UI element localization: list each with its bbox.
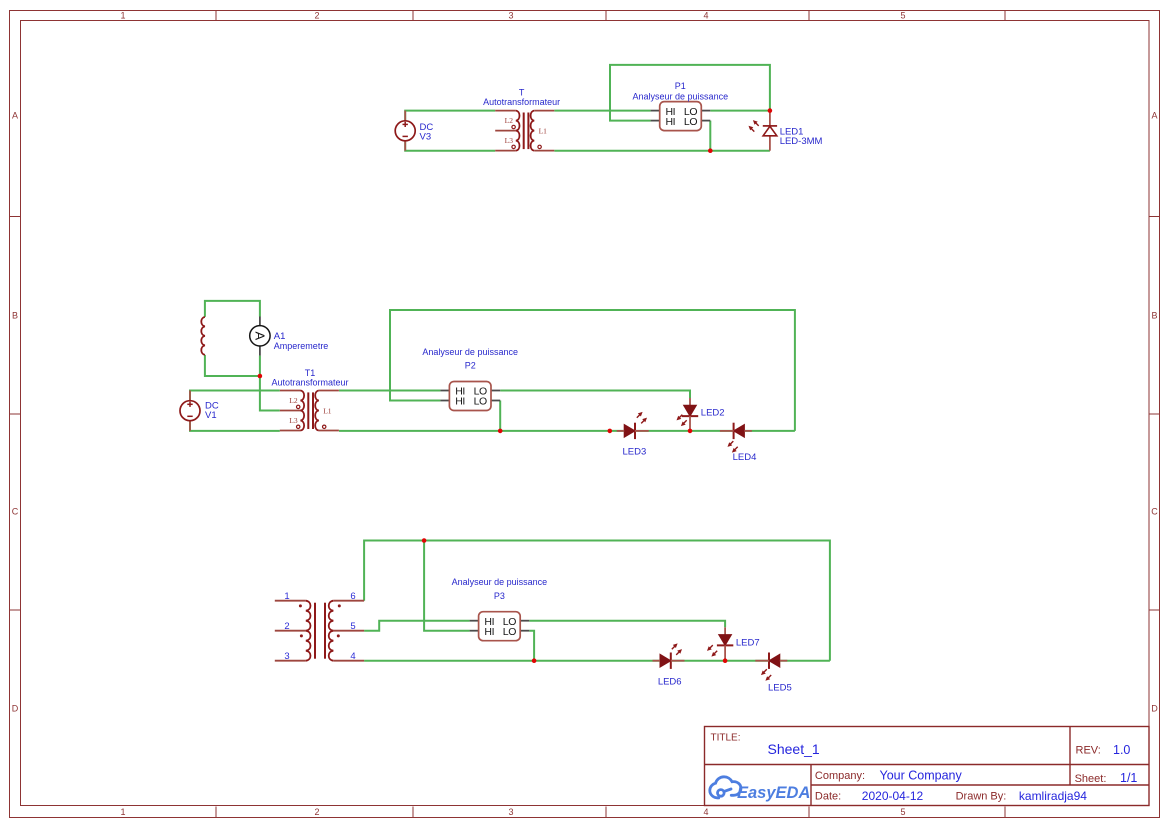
- svg-text:L1: L1: [539, 127, 548, 136]
- svg-text:Company:: Company:: [815, 770, 865, 782]
- svg-text:HI: HI: [484, 626, 494, 638]
- wire pin5 to P3 row1: [364, 621, 470, 631]
- wire ammeter loop top: [205, 301, 260, 317]
- op-amp box P2 (power analyzer): [440, 382, 500, 411]
- svg-text:D: D: [1151, 704, 1158, 714]
- ammeter A1: [250, 317, 270, 356]
- svg-text:LED3: LED3: [623, 446, 647, 457]
- frame ruler ticks top: [216, 11, 1005, 21]
- svg-text:A: A: [12, 111, 18, 121]
- wire bottom net middle: [339, 430, 795, 432]
- junction LED2 bottom: [688, 429, 693, 434]
- svg-text:L3: L3: [505, 136, 514, 145]
- junction left of LED3: [608, 429, 613, 434]
- svg-text:C: C: [12, 507, 19, 517]
- wire P3 row2 down: [529, 631, 534, 661]
- svg-text:5: 5: [350, 621, 355, 632]
- svg-text:V3: V3: [420, 132, 432, 143]
- wire V1 bottom net: [190, 421, 280, 431]
- svg-text:3: 3: [508, 807, 513, 817]
- frame row labels left: [12, 111, 19, 714]
- svg-text:L2: L2: [289, 396, 298, 405]
- svg-text:P1: P1: [675, 81, 686, 91]
- inductor of ammeter loop: [201, 317, 205, 355]
- svg-text:2: 2: [284, 621, 289, 632]
- svg-text:LED-3MM: LED-3MM: [780, 136, 823, 147]
- frame ruler ticks bottom: [216, 807, 1005, 818]
- transformer T1: [280, 391, 339, 431]
- junction P3 row2 bottom: [532, 658, 537, 663]
- svg-text:L3: L3: [289, 416, 298, 425]
- svg-text:C: C: [1151, 507, 1158, 517]
- wire top junction down to P3 row2: [424, 541, 470, 631]
- op-amp box P1 (power analyzer): [651, 102, 711, 131]
- junction bottom: [708, 148, 713, 153]
- svg-text:Analyseur de puissance: Analyseur de puissance: [633, 91, 729, 101]
- svg-text:Amperemetre: Amperemetre: [274, 341, 329, 351]
- svg-text:1/1: 1/1: [1120, 771, 1137, 785]
- svg-text:LED4: LED4: [733, 452, 757, 463]
- wire P1 LO row2 down to bottom net: [709, 121, 711, 151]
- op-amp box P3 (power analyzer): [470, 612, 530, 641]
- svg-text:5: 5: [900, 11, 905, 21]
- LED7 emission arrows: [707, 645, 717, 657]
- LED7 (down): [717, 627, 733, 660]
- svg-text:LED2: LED2: [701, 407, 725, 418]
- LED2 emission arrows: [677, 415, 687, 427]
- svg-text:5: 5: [900, 807, 905, 817]
- frame column labels bottom: [120, 807, 905, 817]
- svg-text:HI: HI: [666, 116, 676, 128]
- svg-text:V1: V1: [205, 410, 217, 421]
- svg-text:2020-04-12: 2020-04-12: [862, 789, 924, 803]
- svg-text:1: 1: [120, 11, 125, 21]
- svg-text:Analyseur de puissance: Analyseur de puissance: [422, 347, 518, 357]
- svg-text:Your Company: Your Company: [880, 768, 963, 782]
- wire P2 LO row1 to LED2: [500, 391, 690, 399]
- EasyEDA logo: [710, 777, 811, 802]
- svg-text:LO: LO: [503, 626, 516, 638]
- LED1 emission arrows: [749, 120, 759, 131]
- svg-text:6: 6: [350, 591, 355, 602]
- junction LED7 bottom: [723, 658, 728, 663]
- svg-text:Analyseur de puissance: Analyseur de puissance: [452, 577, 548, 587]
- svg-text:kamliradja94: kamliradja94: [1019, 789, 1087, 803]
- frame ruler ticks left: [10, 217, 21, 611]
- svg-text:LED5: LED5: [768, 682, 792, 693]
- wire bottom net: [364, 660, 830, 662]
- LED D1 (LED-3MM, outline): [763, 111, 777, 151]
- svg-text:L2: L2: [505, 116, 514, 125]
- wire ammeter loop bottom: [205, 355, 260, 376]
- LED5 (left): [755, 653, 787, 669]
- svg-text:L1: L1: [323, 407, 332, 416]
- svg-text:2: 2: [314, 807, 319, 817]
- svg-text:Sheet:: Sheet:: [1075, 773, 1107, 785]
- svg-text:LO: LO: [474, 396, 487, 408]
- svg-text:Drawn By:: Drawn By:: [956, 791, 1007, 803]
- LED3 (right): [617, 423, 649, 439]
- wire big loop to P2 row2: [390, 310, 795, 431]
- svg-text:LO: LO: [684, 116, 697, 128]
- svg-text:LED6: LED6: [658, 676, 682, 687]
- junction ammeter loop: [258, 374, 263, 379]
- svg-text:B: B: [12, 311, 18, 321]
- junction P2 row2 bottom: [498, 429, 503, 434]
- svg-text:LED7: LED7: [736, 637, 760, 648]
- svg-text:Autotransformateur: Autotransformateur: [483, 97, 560, 107]
- svg-text:1.0: 1.0: [1113, 743, 1130, 757]
- svg-text:3: 3: [508, 11, 513, 21]
- wire T1 right top to P2 HI row1: [339, 390, 440, 392]
- wire bottom net to LED1 bottom: [554, 150, 770, 152]
- LED2 (down): [682, 398, 698, 431]
- LED3 emission arrows: [637, 412, 647, 424]
- svg-text:2: 2: [314, 11, 319, 21]
- frame row labels right: [1151, 111, 1158, 714]
- svg-text:TITLE:: TITLE:: [711, 733, 741, 744]
- svg-text:A: A: [252, 331, 267, 340]
- wire junction down to T1 tap: [260, 376, 280, 411]
- svg-text:Date:: Date:: [815, 791, 841, 803]
- svg-text:3: 3: [284, 651, 289, 662]
- svg-text:T1: T1: [305, 368, 316, 378]
- wire pin6 up and top net: [364, 541, 830, 661]
- wire P2 LO row2 down: [499, 401, 501, 431]
- junction top right: [768, 108, 773, 113]
- wire loop P1 row2 to top: [610, 65, 770, 121]
- frame column labels top: [120, 11, 905, 21]
- frame ruler ticks right: [1149, 217, 1160, 611]
- LED5 emission arrows: [761, 669, 771, 681]
- svg-text:A: A: [1151, 111, 1157, 121]
- LED4 emission arrows: [728, 441, 738, 453]
- svg-text:EasyEDA: EasyEDA: [737, 784, 810, 802]
- svg-text:1: 1: [120, 807, 125, 817]
- DC source V3: [395, 111, 415, 151]
- DC source V1: [180, 391, 200, 431]
- transformer TR1 (bottom, 6 pins): [275, 601, 364, 661]
- svg-text:B: B: [1151, 311, 1157, 321]
- svg-text:4: 4: [350, 651, 355, 662]
- svg-text:1: 1: [284, 591, 289, 602]
- svg-text:REV:: REV:: [1076, 745, 1101, 757]
- svg-text:P2: P2: [465, 361, 476, 371]
- wire ammeter to junction: [259, 356, 261, 376]
- svg-text:P3: P3: [494, 591, 505, 601]
- junction top net: [422, 538, 427, 543]
- wire P3 row1 to LED7: [529, 621, 725, 628]
- svg-text:Sheet_1: Sheet_1: [768, 741, 820, 757]
- wire net V3+ top: [405, 111, 495, 122]
- svg-text:Autotransformateur: Autotransformateur: [271, 378, 348, 388]
- LED6 emission arrows: [672, 643, 682, 655]
- LED6 (right): [653, 653, 685, 669]
- wire V1 top to T1: [190, 391, 280, 401]
- svg-text:T: T: [519, 87, 525, 97]
- svg-text:HI: HI: [455, 396, 465, 408]
- wire P1 LO row1 to LED1 top: [710, 110, 770, 112]
- LED4 (left): [720, 423, 752, 439]
- svg-text:4: 4: [703, 11, 708, 21]
- wire net V3- bottom: [405, 140, 495, 150]
- transformer T: [495, 111, 554, 151]
- wire T right top to P1 pin HI: [554, 110, 650, 112]
- svg-text:4: 4: [703, 807, 708, 817]
- svg-text:D: D: [12, 704, 19, 714]
